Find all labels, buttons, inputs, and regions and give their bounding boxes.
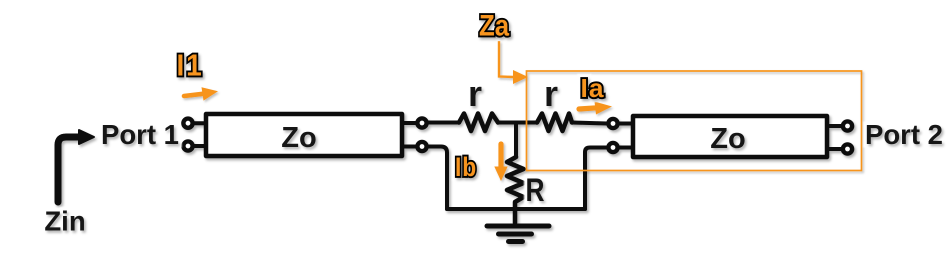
label r (second)	[544, 73, 558, 114]
bottom-left wire: U1 lower terminal down to ground rail	[428, 147, 448, 210]
svg-text:R: R	[526, 172, 545, 208]
label Ia	[581, 73, 605, 103]
transmission line U1 (Zo) box	[206, 114, 402, 156]
wire: port1 top stub	[193, 121, 206, 125]
svg-text:r: r	[544, 73, 558, 114]
label Port 1	[101, 119, 179, 150]
ground rail wire	[447, 207, 585, 211]
I1 current arrow shaft	[184, 94, 203, 96]
wire up to U2 lower terminal	[585, 148, 607, 210]
port2 terminal top	[843, 121, 852, 130]
label Zo (U2)	[710, 123, 745, 155]
label Port 2	[865, 119, 943, 150]
wire: U2 left bottom stub	[618, 146, 633, 150]
Ia current arrowhead	[595, 102, 613, 115]
Ia current arrow shaft	[579, 108, 597, 109]
ground stem	[513, 209, 518, 223]
label r (first)	[468, 73, 482, 114]
Za pointer line	[499, 41, 513, 77]
wire: U2 right top stub	[827, 124, 842, 128]
svg-text:r: r	[468, 73, 482, 114]
label R	[526, 172, 545, 208]
svg-text:Ia: Ia	[581, 73, 605, 103]
port2 terminal bottom	[843, 144, 852, 153]
svg-text:Port 1: Port 1	[101, 119, 179, 150]
wire: U2 right bottom stub	[827, 147, 842, 151]
I1 current arrowhead	[202, 87, 219, 100]
ground bar 2	[499, 232, 532, 237]
svg-text:Ib: Ib	[455, 152, 477, 182]
label Zo (U1)	[281, 122, 316, 154]
svg-text:Zo: Zo	[281, 122, 316, 154]
svg-text:Zin: Zin	[44, 206, 85, 237]
svg-text:Port 2: Port 2	[865, 119, 943, 150]
top wire to resistor r1	[428, 121, 460, 125]
Zin input arrow shaft	[58, 137, 80, 202]
U2 left terminal bottom	[608, 143, 617, 152]
resistor R (vertical)	[507, 157, 524, 210]
ground bar 3	[509, 239, 523, 244]
label Za	[479, 10, 509, 43]
U1 right terminal top	[417, 118, 426, 127]
Za boundary rectangle	[527, 71, 862, 171]
U2 left terminal top	[608, 119, 617, 128]
resistor r2	[537, 114, 572, 132]
port1 terminal bottom	[183, 141, 192, 150]
ground bar 1	[487, 224, 549, 229]
wire: port1 bottom stub	[193, 144, 206, 148]
port1 terminal top	[183, 119, 192, 128]
label I1	[177, 48, 204, 83]
wire r1 to junction to r2	[498, 121, 537, 125]
Zin input arrowhead	[79, 130, 94, 144]
wire: U1 right bottom stub	[402, 145, 417, 149]
resistor r1	[459, 114, 498, 132]
svg-text:I1: I1	[177, 48, 204, 83]
U1 right terminal bottom	[417, 142, 426, 151]
wire: U1 right top stub	[402, 121, 417, 125]
wire r2 to port of U2	[572, 123, 607, 124]
wire: U2 left top stub	[618, 122, 633, 126]
Ib current arrow shaft	[498, 144, 503, 167]
Ib current arrowhead	[494, 167, 507, 182]
junction node: vertical wire down to R	[514, 123, 518, 158]
Za pointer arrowhead	[513, 70, 528, 84]
label Zin	[44, 206, 85, 237]
transmission line U2 (Zo) box	[633, 116, 827, 157]
label Ib	[455, 152, 477, 182]
svg-text:Zo: Zo	[710, 123, 745, 155]
svg-text:Za: Za	[479, 10, 509, 43]
